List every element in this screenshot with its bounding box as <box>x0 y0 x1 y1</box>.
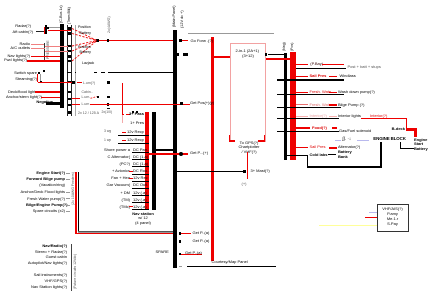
U1 bottom-left red corner <box>229 140 235 141</box>
label Get Pos mid <box>190 151 208 155</box>
row5 wire pink stub <box>296 115 309 118</box>
wire row2 lead (black) <box>36 31 45 32</box>
wire stern row red short <box>72 97 80 100</box>
U2 text <box>379 207 406 211</box>
wire row y104 red short <box>72 103 80 106</box>
label ENGINE BLOCK <box>373 137 405 141</box>
red feeder vline to subpanel <box>122 83 123 116</box>
label row11 Negative <box>29 100 53 104</box>
groupA rotated gauge label <box>71 172 75 205</box>
groupA label 2b <box>30 183 65 187</box>
bus bar B1 (main positive bus, left) <box>60 24 64 108</box>
connector J1 pins <box>68 27 70 29</box>
wire U-path vline up to engine block <box>380 142 382 167</box>
groupB label 2 <box>26 250 67 254</box>
junction dot on red wire <box>179 152 183 156</box>
connector plug P1 <box>45 25 47 33</box>
black tick below pins <box>107 108 111 109</box>
wire long red to bus2 y104 <box>90 104 190 105</box>
shunt lavender wire right <box>357 139 369 142</box>
wire red elbow vline <box>406 118 407 129</box>
connector crossbar <box>67 72 71 73</box>
mid terminal sq b <box>97 96 99 98</box>
wire row2 red to connector <box>48 30 71 31</box>
mid black bar B5 (nav-station sub panel -) <box>152 112 156 210</box>
U1 name text <box>236 49 259 53</box>
gray rail right of J1 <box>74 25 77 116</box>
node on bus B2 row y233 <box>179 232 182 235</box>
red feeder pale continuation <box>122 115 123 123</box>
bus B2 rotated name label <box>172 5 176 27</box>
wire row1 cont to bus (gray) <box>49 26 60 29</box>
subpanel row 9 <box>104 176 130 180</box>
main bus B2 (tall black distribution bus) <box>173 30 177 268</box>
wire engine block to battery L hline <box>400 148 414 150</box>
label row2 Aft cabin <box>10 30 33 34</box>
groupB label 1 <box>32 244 67 248</box>
shunt symbol glyphs <box>342 137 351 141</box>
row5 label pink <box>310 114 327 118</box>
groupB collector vline <box>71 244 72 291</box>
row5 wire red to engine start battery <box>361 118 407 119</box>
groupB label 4 <box>22 261 67 265</box>
wire row6 (red thick) <box>27 60 60 62</box>
row4 red segment <box>329 104 337 106</box>
wire fan pin4 to N1 <box>72 41 97 51</box>
row6 label red <box>312 126 327 130</box>
label y233 <box>193 231 210 235</box>
row4 wire red stub <box>296 104 309 105</box>
subpanel row 6 <box>104 155 130 159</box>
mid red bar B4 (nav-station sub panel +) <box>145 112 149 211</box>
wire antenna red vline from U1 <box>247 152 248 179</box>
node on bus B2 row1 <box>179 39 182 42</box>
label Get Pos y104 <box>190 101 214 105</box>
label row3 Radio <box>10 42 30 46</box>
subpanel row 10 <box>104 183 130 187</box>
device box U1 (pink outline) <box>230 43 266 142</box>
wire red stub y233 <box>181 233 191 234</box>
U1 caption below <box>235 141 263 145</box>
groupB rotated label <box>73 254 77 289</box>
subpanel row 12 <box>104 198 130 202</box>
bus B1 rotated name label <box>59 5 63 23</box>
terminal pin b <box>107 96 109 98</box>
right red bus B7 (engine area positive) <box>290 52 295 160</box>
connector J1 left rail <box>66 25 69 116</box>
wire red bus B3 to device box (thick red) <box>214 56 231 58</box>
wire red elbow thick vline down <box>414 131 417 137</box>
label antenna <box>251 169 270 173</box>
row8 black segment <box>328 154 336 156</box>
row3 label red <box>310 90 332 94</box>
wire U-path vline down from row8 <box>307 155 309 166</box>
groupB label 3 <box>30 255 67 259</box>
row3 device label <box>338 90 375 94</box>
wire groupA gray to bus B2 <box>78 231 173 234</box>
groupA label 1 <box>30 171 65 175</box>
subpanel top terminal nodes <box>132 111 134 113</box>
connector J1 right rail <box>70 25 73 116</box>
label row10 Anchor/stern light <box>6 95 40 99</box>
terminal pin a <box>107 81 109 83</box>
bracket BR1 rotated label <box>46 40 50 59</box>
label B-deck <box>385 127 405 131</box>
terminal pin c on red wire <box>107 103 109 105</box>
wire red stub y253 <box>181 254 202 255</box>
row2 device label <box>340 74 356 78</box>
P2 side terminal <box>43 70 45 72</box>
row8 label <box>310 153 328 157</box>
P2 terminal top <box>38 72 40 74</box>
row2 black return wire <box>277 79 345 81</box>
bus B7 rotated name label <box>290 43 294 51</box>
row5 black return wire <box>277 117 340 120</box>
subpanel caption 3 lines <box>128 212 158 216</box>
groupB label 6 <box>30 279 67 283</box>
fan label Battery2 <box>80 50 91 54</box>
row8 black wire from bus B6 <box>287 155 307 157</box>
row5 pink segment <box>329 116 337 117</box>
label row8 Steaming <box>13 77 37 81</box>
wire stub row y99 up-right <box>91 97 97 99</box>
wire row3 cont <box>45 45 68 48</box>
legend red wire segment <box>296 64 308 65</box>
dashes before ground wire <box>94 72 97 73</box>
red dash after pin <box>77 81 82 84</box>
wire row5 (red thick) <box>31 56 60 58</box>
wire engine block to battery L vline <box>400 142 402 149</box>
groupB label 7 <box>22 285 67 289</box>
label Go Forward <box>191 39 213 43</box>
label y241 <box>193 239 210 243</box>
red bus B3 (tall red positive feed) <box>211 37 214 261</box>
groupA label 5 <box>26 203 65 207</box>
wire row8 red to connector pin <box>38 82 73 83</box>
row5 inline red label <box>370 114 387 118</box>
wire mast black from bus B2 <box>177 171 244 172</box>
groupA label 6 <box>26 209 65 213</box>
subpanel row 5 <box>104 148 130 152</box>
fan-out junction node N1 <box>96 39 99 42</box>
wire courtesy panel bottom <box>187 266 277 267</box>
fan label Position2 <box>78 45 91 49</box>
wire row4 (thin red) <box>31 47 45 50</box>
wire U1 to red bus B7 (red) <box>266 58 291 60</box>
wire fan pin5 to N1 <box>72 41 97 61</box>
wire row10 (red thick) <box>41 97 60 99</box>
row4 device label <box>338 103 364 107</box>
wire U1 to black bus B6 (black) <box>268 54 284 56</box>
label Bank <box>338 155 348 159</box>
row7 red segment thick <box>329 147 337 149</box>
P2 gray link <box>39 74 42 81</box>
wire subpanel black bar to bus B2 <box>156 149 173 151</box>
junction node on y104 wire right of B2 <box>180 102 183 105</box>
splitter box U2 <box>377 204 409 232</box>
bracket BR1 <box>44 43 45 60</box>
node on bus B2 row y241 <box>179 240 182 243</box>
legend text <box>348 65 381 69</box>
rotated wire gauge label near N1 <box>107 16 111 33</box>
label y253 <box>185 251 202 255</box>
row7 wire red stub <box>296 147 309 148</box>
row7 device label Alternator <box>338 145 360 149</box>
wire row3 (thin red) <box>31 43 45 46</box>
label stern2 <box>82 102 90 106</box>
groupB label 5 <box>26 273 67 277</box>
row2 label red <box>310 74 327 78</box>
mast wire terminal <box>243 170 246 173</box>
subpanel row 13 <box>104 205 130 209</box>
row6 device label <box>339 129 371 133</box>
wire lavender stub to U2 <box>369 211 377 214</box>
gray tick at bus bottom <box>179 265 183 268</box>
small gray label windlass up <box>83 81 95 85</box>
label (+) under antenna <box>242 182 247 186</box>
row3 black return wire <box>277 94 344 95</box>
groupA label 4 <box>26 197 65 201</box>
subpanel row 3 <box>104 129 111 133</box>
bus B6 rotated name label <box>282 42 286 51</box>
legend red wire segment 2 <box>322 64 344 65</box>
label Engine Start Battery <box>414 138 427 142</box>
wire groupA black to bus B2 <box>78 230 173 233</box>
subpanel row 4 <box>104 138 111 142</box>
row4 label red <box>310 103 332 107</box>
wire yellow to U2 <box>319 225 377 226</box>
P2 terminal bottom <box>40 81 42 83</box>
fan label Laser <box>82 61 94 65</box>
label Battery <box>338 150 352 154</box>
subpanel row 2 <box>127 121 145 125</box>
wire red elbow thick hline <box>406 128 417 131</box>
label row9 Deck/Anchor light <box>8 90 34 94</box>
wire fan pin3 to N1 <box>72 41 97 46</box>
row6 black return wire <box>277 131 339 132</box>
connector J1 rotated name label <box>67 7 71 24</box>
subpanel row 1 <box>123 114 124 116</box>
connector plug P2 red link <box>37 74 38 83</box>
row3 red segment <box>329 92 337 94</box>
wire red stub to U2 <box>365 217 377 218</box>
wire subpanel red bar to right (red) <box>149 153 188 154</box>
label Courtesy/Map Panel <box>212 260 248 264</box>
row6 wire red stub <box>296 127 311 128</box>
label row7 Switch spare <box>13 71 37 75</box>
groupA leads <box>66 172 70 175</box>
small gray label lum2 <box>82 95 91 99</box>
wire fan pin1 to N1 <box>72 29 97 41</box>
row3 wire red stub <box>296 92 309 93</box>
label SPARE <box>156 250 169 254</box>
label row1 Radar <box>10 24 31 28</box>
U1 right terminal <box>265 53 267 55</box>
small gray label cabin <box>82 90 93 94</box>
row6 red segment thick <box>332 127 337 129</box>
row2 wire red stub <box>296 76 309 77</box>
subpanel row 11 <box>104 191 130 195</box>
row7 label red <box>310 145 326 149</box>
fan label Battery <box>80 31 91 35</box>
wire row11 (black thick) <box>46 102 60 105</box>
row2 red segment <box>329 76 338 78</box>
wire ground to bus B2 (black) <box>108 72 173 73</box>
wire U-path bottom hline <box>307 166 382 168</box>
wire groupA red to bus B2 <box>75 233 172 234</box>
wire N1 to bus B2 (red) <box>99 40 173 41</box>
wire row9 (red thick) <box>35 91 60 93</box>
groupA label 2 <box>24 177 65 181</box>
label row5 Nav lights <box>6 54 30 58</box>
node on bus B2 row y253 <box>179 253 182 256</box>
groupA label 3 <box>20 190 65 194</box>
thick dashed stub on bus B2 <box>177 53 180 56</box>
subpanel row 7 <box>104 162 130 166</box>
shunt lavender wire left <box>335 139 341 142</box>
row4 black return wire <box>277 107 342 108</box>
subpanel gauge label <box>102 110 113 114</box>
groupA black collector vline <box>78 172 79 231</box>
label row4 A/C outlets <box>6 46 30 50</box>
right black bus B6 (engine area negative) <box>284 53 287 160</box>
wire row4 cont <box>45 50 68 53</box>
fan label Position <box>78 25 91 29</box>
legend label P.Bay <box>310 62 323 66</box>
label value 2x12/125 <box>78 111 99 115</box>
junction node on N1 wire <box>107 39 110 42</box>
label row6 Fwd lights <box>3 58 27 62</box>
subpanel row 8 <box>104 169 130 173</box>
wire fan pin2 to N1 <box>72 34 97 41</box>
legend black wire segment <box>296 68 346 69</box>
row5 device label <box>338 114 361 118</box>
groupA red collector vline <box>75 172 76 234</box>
connector pin row8 <box>72 81 74 83</box>
U1 bottom-right red corner <box>258 140 265 141</box>
gray net line upper <box>188 32 274 35</box>
wire bus B2 row1 red stub <box>182 40 188 41</box>
